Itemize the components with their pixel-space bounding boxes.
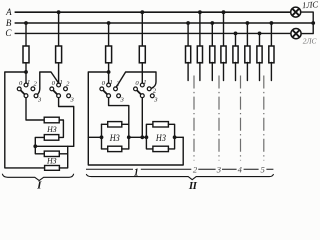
node block I mid bbox=[33, 144, 37, 148]
wire drop F5 bbox=[187, 23, 189, 47]
node F8 on bus bbox=[222, 10, 226, 14]
wire stub F10 bbox=[246, 62, 248, 80]
node block I feed bbox=[24, 70, 28, 74]
node F2 on bus bbox=[57, 10, 61, 14]
wire drop F9 bbox=[235, 33, 237, 46]
node F1 on bus bbox=[24, 21, 28, 25]
svg-text:3: 3 bbox=[216, 165, 221, 175]
wire pair2 left loop bbox=[146, 124, 153, 149]
wire drop F3 bbox=[108, 23, 110, 46]
fuse F12 bbox=[269, 46, 274, 63]
wire F1 to switch bbox=[25, 63, 27, 85]
switch S2 contact 0 bbox=[50, 87, 54, 91]
switch S4 contact 3 bbox=[150, 94, 154, 98]
wire S3 output to pair 1 right node bbox=[109, 98, 129, 149]
svg-text:1: 1 bbox=[27, 79, 30, 86]
switch S4 contact 2 bbox=[147, 87, 151, 91]
wire stub F11 bbox=[259, 62, 261, 80]
svg-text:0: 0 bbox=[102, 80, 106, 87]
wire F3 to switch bbox=[108, 63, 110, 85]
wire S1 output to element 1 bbox=[26, 98, 44, 120]
svg-text:II: II bbox=[188, 180, 198, 191]
wire stub F9 bbox=[235, 62, 237, 80]
wire S2 output down right side bbox=[59, 98, 74, 147]
wire S1 pos3 to S2 input bbox=[38, 72, 59, 94]
wire drop F1 bbox=[25, 23, 27, 46]
wire stub F5 bbox=[187, 62, 189, 80]
heating element НЗ1 (block I upper) bbox=[44, 117, 59, 123]
svg-text:2ЛС: 2ЛС bbox=[303, 36, 317, 45]
svg-text:2: 2 bbox=[193, 165, 198, 175]
svg-text:НЗ: НЗ bbox=[109, 134, 120, 144]
svg-text:А: А bbox=[5, 7, 12, 17]
switch S1 contact 0 bbox=[17, 87, 21, 91]
heating element НЗ7 (II-1 right top) bbox=[153, 122, 169, 127]
node F11 on bus bbox=[258, 32, 262, 36]
wire stub F7 bbox=[211, 62, 213, 80]
signal lamp 2ЛС bbox=[291, 28, 301, 38]
svg-text:3: 3 bbox=[153, 97, 158, 104]
wire drop F4 bbox=[141, 12, 143, 46]
wire drop F7 bbox=[211, 23, 213, 47]
switch S3 contact 2 bbox=[114, 87, 118, 91]
svg-text:НЗ: НЗ bbox=[46, 124, 57, 134]
wire S4 output down bbox=[141, 98, 143, 138]
fuse F2 bbox=[56, 46, 62, 63]
node B right end bbox=[311, 21, 315, 25]
switch S3 pivot bbox=[107, 94, 111, 98]
wire F2 to switch bbox=[58, 63, 60, 85]
fuse F3 bbox=[106, 46, 112, 63]
wire block I left edge (phase B) bbox=[5, 72, 45, 168]
node F6 on bus bbox=[198, 10, 202, 14]
node block II feed bbox=[107, 70, 111, 74]
fuse F4 bbox=[139, 46, 145, 63]
switch S3 lever bbox=[102, 89, 109, 96]
svg-text:С: С bbox=[5, 28, 12, 38]
switch S1 lever bbox=[19, 89, 26, 96]
fuse F8 bbox=[221, 46, 226, 63]
node pair1 left bbox=[100, 135, 104, 139]
wire drop F8 bbox=[223, 12, 225, 46]
wire drop F6 bbox=[199, 12, 201, 46]
node F3 on bus bbox=[107, 21, 111, 25]
fuse F5 bbox=[186, 46, 191, 63]
svg-text:3: 3 bbox=[37, 97, 42, 104]
brace group II bbox=[86, 174, 273, 180]
switch S2 pivot bbox=[57, 94, 61, 98]
node pair2 right bbox=[173, 135, 177, 139]
node F5 on bus bbox=[186, 21, 190, 25]
svg-text:2: 2 bbox=[66, 80, 70, 87]
switch S4 pivot bbox=[140, 94, 144, 98]
wire pair1 right stubs bbox=[122, 124, 129, 149]
section 5 axis (dash-dot) bbox=[263, 76, 265, 161]
wire node line mid segment bbox=[129, 136, 147, 138]
section 2 axis (dash-dot) bbox=[193, 76, 195, 161]
switch S1 contact 3 bbox=[34, 94, 38, 98]
svg-text:3: 3 bbox=[70, 97, 75, 104]
switch S1 contact 1 bbox=[24, 83, 28, 87]
node F12 on bus bbox=[270, 21, 274, 25]
bus line A bbox=[15, 11, 291, 13]
wire stub F8 bbox=[223, 62, 225, 80]
svg-text:1ЛС: 1ЛС bbox=[302, 0, 319, 10]
section 3 axis (dash-dot) bbox=[218, 76, 220, 161]
svg-text:1: 1 bbox=[60, 79, 63, 86]
switch S2 contact 1 bbox=[57, 83, 61, 87]
node F4 on bus bbox=[140, 10, 144, 14]
svg-text:5: 5 bbox=[260, 165, 265, 175]
svg-text:В: В bbox=[6, 18, 12, 28]
svg-text:0: 0 bbox=[52, 80, 56, 87]
svg-text:4: 4 bbox=[238, 164, 243, 174]
fuse F6 bbox=[197, 46, 202, 63]
wire node line left segment bbox=[88, 136, 101, 138]
wire mid node to S2 branch bbox=[35, 145, 73, 147]
svg-text:0: 0 bbox=[19, 80, 23, 87]
svg-text:I: I bbox=[36, 180, 42, 191]
wire pair1 left stubs bbox=[102, 124, 108, 149]
bus line C bbox=[15, 32, 291, 34]
wire elem2 left to elem3 bbox=[35, 137, 44, 153]
node pair2 left bbox=[145, 135, 149, 139]
svg-text:НЗ: НЗ bbox=[46, 156, 57, 166]
node pair1 right bbox=[127, 135, 131, 139]
svg-text:1: 1 bbox=[110, 79, 113, 86]
switch S1 contact 2 bbox=[31, 87, 35, 91]
switch S4 contact 0 bbox=[134, 87, 138, 91]
svg-text:2: 2 bbox=[34, 80, 38, 87]
wire lamp loop right edge bbox=[301, 12, 314, 33]
section 4 axis (dash-dot) bbox=[240, 76, 242, 161]
heating element НЗ4 (block I lower pair bottom) bbox=[45, 166, 60, 171]
brace group I bbox=[2, 174, 73, 181]
switch S3 contact 1 bbox=[107, 83, 111, 87]
fuse F1 bbox=[23, 46, 29, 63]
fuse F7 bbox=[210, 46, 215, 63]
bus line B bbox=[15, 22, 314, 24]
wire node line right segment bbox=[175, 136, 184, 138]
heating element НЗ6 (II-1 left bottom) bbox=[108, 146, 122, 151]
switch S4 lever bbox=[136, 89, 143, 96]
node F10 on bus bbox=[246, 21, 250, 25]
wire pair2 right loop bbox=[168, 124, 174, 149]
wire block II frame (left edge, bottom, right leg) bbox=[88, 72, 183, 165]
node S4 drop bbox=[140, 135, 144, 139]
wire drop F2 bbox=[58, 12, 60, 46]
heating element НЗ2 (block I) bbox=[44, 135, 59, 141]
heating element НЗ3 (block I lower pair top) bbox=[44, 151, 59, 156]
wire right loop elem3-elem4 bbox=[59, 146, 67, 168]
wire F4 to switch bbox=[141, 63, 143, 85]
wire series loop elem1-elem2 bbox=[59, 120, 64, 137]
wire drop F10 bbox=[246, 23, 248, 47]
wire stub F6 bbox=[199, 62, 201, 80]
svg-text:1: 1 bbox=[143, 79, 146, 86]
fuse F11 bbox=[257, 46, 262, 63]
svg-text:НЗ: НЗ bbox=[155, 134, 166, 144]
switch S2 lever bbox=[52, 89, 59, 96]
signal lamp 1ЛС bbox=[291, 7, 301, 17]
wire stub F12 bbox=[270, 62, 272, 80]
fuse F9 bbox=[233, 46, 238, 63]
fuse F10 bbox=[245, 46, 250, 63]
svg-text:3: 3 bbox=[120, 97, 125, 104]
heating element НЗ8 (II-1 right bottom) bbox=[153, 146, 169, 151]
switch S2 contact 2 bbox=[64, 87, 68, 91]
switch S4 contact 1 bbox=[140, 83, 144, 87]
switch S3 contact 0 bbox=[100, 87, 104, 91]
switch S1 pivot bbox=[24, 94, 28, 98]
switch S3 contact 3 bbox=[117, 94, 121, 98]
node F7 on bus bbox=[210, 21, 214, 25]
svg-text:2: 2 bbox=[153, 87, 157, 94]
heating element НЗ5 (II-1 left top) bbox=[108, 122, 122, 127]
node F9 on bus bbox=[234, 32, 238, 36]
switch S2 contact 3 bbox=[67, 94, 71, 98]
wire drop F12 bbox=[270, 23, 272, 47]
wire S3 pos2 to S4 pos2 bbox=[116, 72, 156, 89]
wire drop F11 bbox=[259, 33, 261, 46]
wire pair1 left loop bbox=[101, 124, 103, 149]
section number rule bbox=[86, 168, 273, 170]
svg-text:0: 0 bbox=[135, 80, 139, 87]
